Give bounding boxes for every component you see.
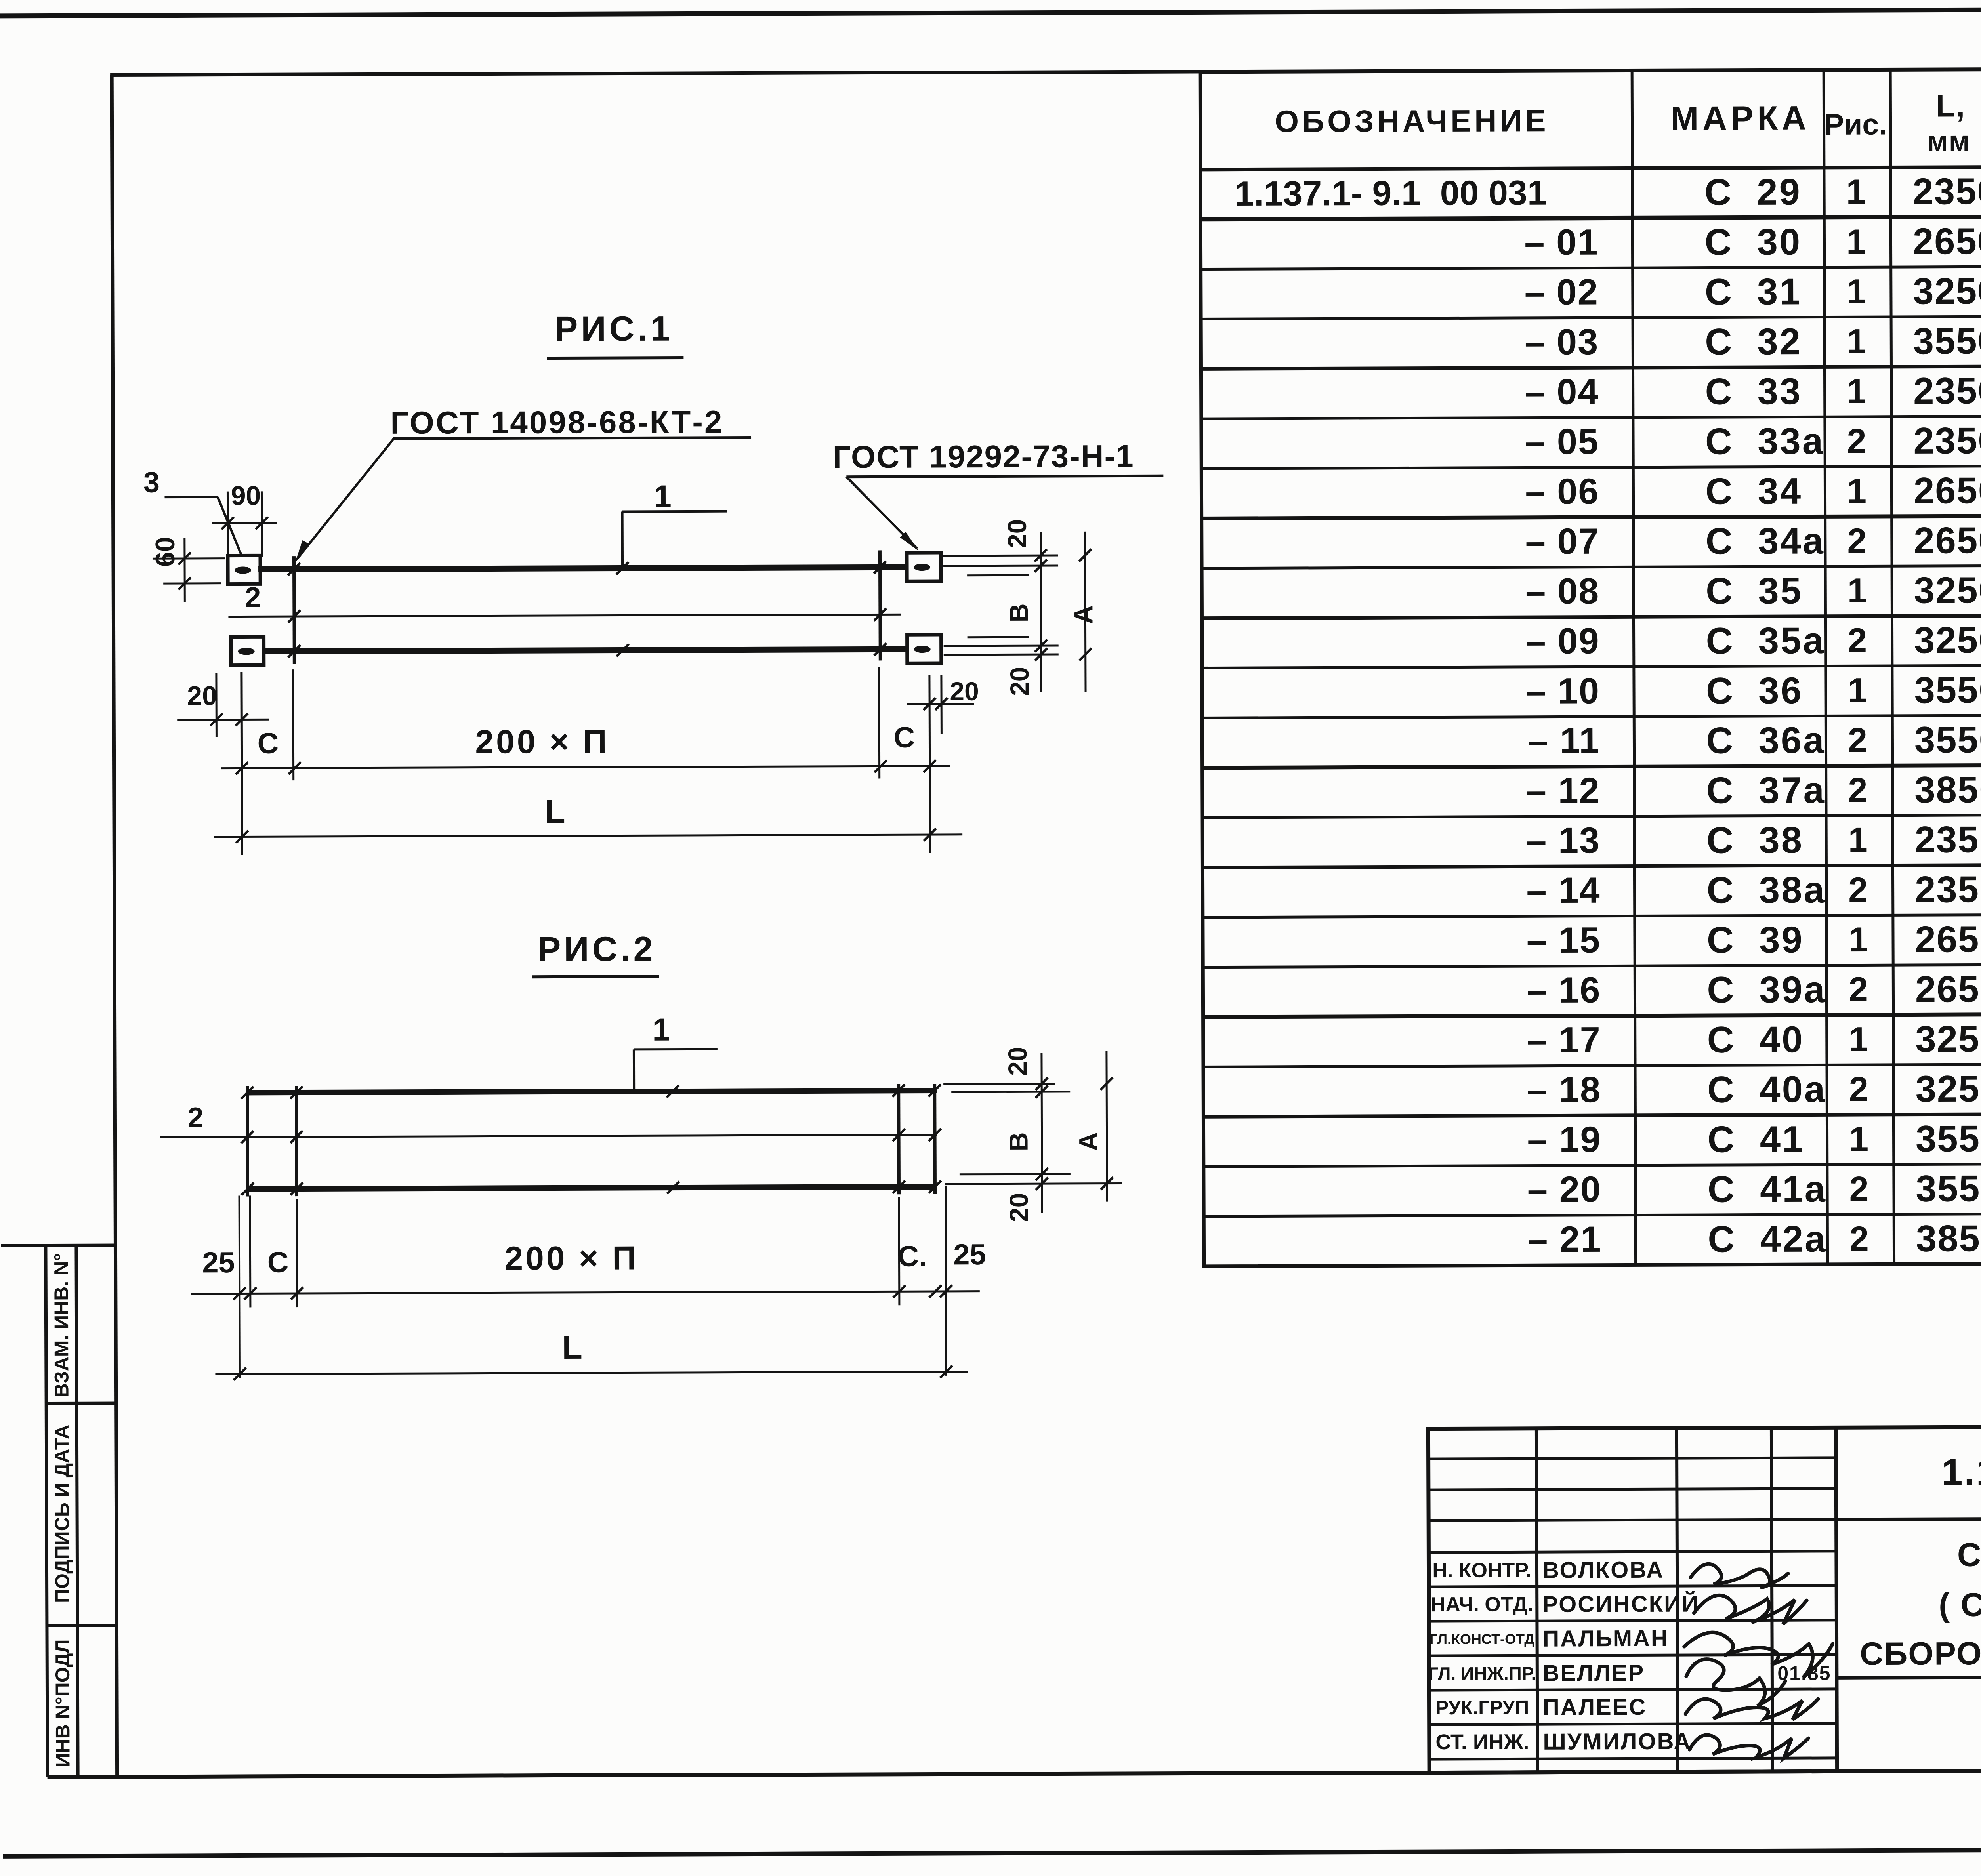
svg-text:мм: мм <box>1927 126 1971 157</box>
table column lines <box>1632 71 1636 1265</box>
svg-text:3850: 3850 <box>1916 1217 1981 1259</box>
svg-text:С 34: С 34 <box>1705 470 1802 512</box>
svg-text:20: 20 <box>1002 519 1032 549</box>
svg-text:ИНВ N°ПОДЛ: ИНВ N°ПОДЛ <box>52 1639 74 1767</box>
svg-text:L,: L, <box>1936 88 1966 123</box>
svg-text:25: 25 <box>953 1238 986 1271</box>
svg-text:2350: 2350 <box>1913 419 1981 461</box>
svg-text:– 11: – 11 <box>1528 721 1600 761</box>
svg-text:1: 1 <box>1846 272 1866 311</box>
svg-text:1: 1 <box>1847 322 1866 361</box>
svg-text:ПАЛЬМАН: ПАЛЬМАН <box>1542 1626 1669 1652</box>
svg-text:– 12: – 12 <box>1526 770 1600 811</box>
svg-text:– 10: – 10 <box>1526 671 1600 711</box>
svg-text:20: 20 <box>950 677 979 706</box>
svg-text:1: 1 <box>654 479 672 514</box>
top scan edge line <box>0 8 1981 16</box>
svg-text:ШУМИЛОВА: ШУМИЛОВА <box>1543 1729 1691 1755</box>
svg-text:Рис.: Рис. <box>1824 107 1887 141</box>
fig1 cross wire left <box>292 556 296 664</box>
svg-text:25: 25 <box>202 1246 235 1279</box>
svg-text:– 19: – 19 <box>1527 1119 1601 1160</box>
svg-text:ГЛ. ИНЖ.ПР.: ГЛ. ИНЖ.ПР. <box>1428 1663 1536 1684</box>
svg-text:3550: 3550 <box>1914 719 1981 761</box>
svg-text:С 40а: С 40а <box>1707 1068 1826 1110</box>
svg-text:2350: 2350 <box>1913 370 1981 412</box>
fig1 middle wire (item 2 leader) <box>228 614 901 616</box>
svg-text:3250: 3250 <box>1915 1018 1981 1060</box>
svg-text:2: 2 <box>1849 1070 1868 1109</box>
svg-text:2: 2 <box>187 1102 203 1134</box>
svg-text:2: 2 <box>1849 970 1868 1009</box>
svg-text:– 08: – 08 <box>1525 571 1599 612</box>
svg-text:1: 1 <box>1849 1020 1868 1059</box>
svg-text:– 18: – 18 <box>1527 1070 1601 1110</box>
svg-text:С 38: С 38 <box>1706 819 1804 861</box>
svg-text:1: 1 <box>1848 920 1868 959</box>
table outer border <box>1200 68 1981 1266</box>
fig1 weld ticks <box>288 563 300 575</box>
svg-text:А: А <box>1074 1132 1103 1151</box>
fig2 bottom dimension chain 25/С/200хП/С/25 <box>239 1196 240 1378</box>
svg-text:НАЧ. ОТД.: НАЧ. ОТД. <box>1431 1593 1533 1616</box>
svg-text:3250: 3250 <box>1914 619 1981 661</box>
svg-text:1: 1 <box>652 1012 670 1047</box>
svg-text:ВЕЛЛЕР: ВЕЛЛЕР <box>1543 1660 1645 1686</box>
svg-text:2650: 2650 <box>1914 469 1981 511</box>
svg-text:С 41: С 41 <box>1707 1118 1804 1160</box>
svg-text:– 17: – 17 <box>1527 1020 1601 1060</box>
svg-text:L: L <box>545 793 565 830</box>
svg-text:РУК.ГРУП: РУК.ГРУП <box>1435 1696 1529 1719</box>
bottom scan edge line <box>3 1848 1981 1857</box>
svg-text:С 40: С 40 <box>1707 1018 1804 1060</box>
svg-text:ВОЛКОВА: ВОЛКОВА <box>1542 1557 1664 1583</box>
svg-text:– 05: – 05 <box>1525 421 1599 462</box>
svg-text:– 03: – 03 <box>1525 322 1599 362</box>
svg-text:МАРКА: МАРКА <box>1670 99 1810 137</box>
svg-text:2: 2 <box>1849 1219 1869 1258</box>
svg-text:В: В <box>1004 1132 1033 1151</box>
fig1 right dimension chain 20/В/А/20 <box>943 555 1058 557</box>
fig2 middle wire (item 2 leader) <box>160 1135 937 1137</box>
svg-text:ГЛ.КОНСТ-ОТД: ГЛ.КОНСТ-ОТД <box>1429 1631 1534 1647</box>
svg-text:3250: 3250 <box>1913 270 1981 312</box>
svg-text:– 06: – 06 <box>1525 471 1599 512</box>
svg-text:ГОСТ 14098-68-КТ-2: ГОСТ 14098-68-КТ-2 <box>390 404 723 440</box>
svg-text:3250: 3250 <box>1915 1068 1981 1110</box>
svg-text:С 36: С 36 <box>1706 669 1803 711</box>
svg-text:1: 1 <box>1847 671 1867 710</box>
svg-text:2: 2 <box>245 581 261 613</box>
svg-text:– 09: – 09 <box>1525 621 1599 662</box>
svg-text:1: 1 <box>1847 471 1866 510</box>
fig1 anchor plate top-right <box>907 553 941 581</box>
svg-text:С 34а: С 34а <box>1706 520 1825 562</box>
svg-text:3: 3 <box>143 466 160 499</box>
svg-text:– 20: – 20 <box>1527 1169 1601 1210</box>
svg-text:200 × П: 200 × П <box>475 723 609 761</box>
svg-text:2350: 2350 <box>1914 818 1981 860</box>
drawing frame border <box>110 67 1981 75</box>
svg-text:2650: 2650 <box>1914 519 1981 561</box>
svg-text:1: 1 <box>1848 820 1868 859</box>
fig1 cross wire right <box>878 550 882 660</box>
fig2 cross wires <box>246 1086 249 1196</box>
svg-text:РИС.1: РИС.1 <box>555 309 673 349</box>
svg-text:2: 2 <box>1847 421 1866 460</box>
svg-text:3850: 3850 <box>1914 768 1981 810</box>
svg-text:2350: 2350 <box>1915 868 1981 910</box>
svg-text:– 21: – 21 <box>1527 1219 1601 1260</box>
svg-text:С 33: С 33 <box>1705 370 1802 412</box>
svg-text:В: В <box>1004 603 1033 622</box>
svg-text:– 15: – 15 <box>1527 920 1601 961</box>
svg-text:СЕТКА: СЕТКА <box>1957 1536 1981 1573</box>
svg-text:20: 20 <box>1004 1193 1033 1222</box>
svg-text:1: 1 <box>1846 222 1866 261</box>
svg-text:2: 2 <box>1849 1169 1868 1208</box>
svg-text:– 01: – 01 <box>1524 222 1598 263</box>
svg-text:С 42а: С 42а <box>1708 1218 1827 1260</box>
fig2 right dimension chain 20/В/А/20 <box>943 1083 1055 1085</box>
svg-text:3250: 3250 <box>1914 569 1981 611</box>
svg-text:2: 2 <box>1847 521 1866 560</box>
svg-text:– 04: – 04 <box>1525 372 1599 412</box>
svg-text:СТ. ИНЖ.: СТ. ИНЖ. <box>1435 1730 1529 1754</box>
signatures (handwriting) <box>1691 1564 1788 1588</box>
table header row line <box>1200 165 1981 170</box>
svg-text:3550: 3550 <box>1914 669 1981 711</box>
svg-text:1.137.1- 9.1 00 031: 1.137.1- 9.1 00 031 <box>1235 173 1547 213</box>
title block outer <box>1428 1425 1981 1773</box>
svg-text:3550: 3550 <box>1916 1167 1981 1209</box>
svg-text:1: 1 <box>1847 372 1866 411</box>
svg-text:2650: 2650 <box>1913 220 1981 262</box>
svg-text:20: 20 <box>187 681 217 711</box>
svg-text:3550: 3550 <box>1916 1117 1981 1159</box>
fig2 weld ticks <box>241 1087 254 1099</box>
fig2 top longitudinal bar <box>247 1091 937 1092</box>
fig2 bottom longitudinal bar <box>248 1187 937 1189</box>
svg-text:2: 2 <box>1848 770 1867 809</box>
fig1 anchor plate top-left <box>228 555 260 584</box>
svg-text:1: 1 <box>1849 1119 1868 1158</box>
title block column lines <box>1536 1428 1538 1772</box>
svg-text:С 35: С 35 <box>1706 570 1803 612</box>
svg-text:2350: 2350 <box>1912 170 1981 212</box>
svg-text:С 41а: С 41а <box>1708 1168 1827 1210</box>
svg-text:С 29: С 29 <box>1704 171 1802 213</box>
svg-text:( С 29 ... С 42): ( С 29 ... С 42) <box>1939 1585 1981 1623</box>
svg-text:L: L <box>562 1329 582 1366</box>
svg-text:С 31: С 31 <box>1705 271 1802 313</box>
svg-text:С: С <box>894 721 915 754</box>
svg-text:1: 1 <box>1847 571 1867 610</box>
svg-text:РОСИНСКИЙ: РОСИНСКИЙ <box>1542 1591 1699 1617</box>
svg-text:С 39а: С 39а <box>1707 969 1826 1010</box>
svg-text:С 35а: С 35а <box>1706 620 1825 662</box>
svg-text:2: 2 <box>1847 621 1867 660</box>
svg-text:ПАЛЕЕС: ПАЛЕЕС <box>1543 1694 1647 1720</box>
fig1 anchor plate bottom-left <box>231 637 264 665</box>
left inventory stamp box <box>1 1244 116 1247</box>
svg-text:С 36а: С 36а <box>1706 719 1825 761</box>
svg-text:А: А <box>1069 605 1098 624</box>
svg-text:ПОДПИСЬ И ДАТА: ПОДПИСЬ И ДАТА <box>51 1425 73 1603</box>
svg-text:С 38а: С 38а <box>1706 869 1826 911</box>
svg-text:1: 1 <box>1846 172 1865 211</box>
svg-text:– 16: – 16 <box>1527 970 1601 1011</box>
svg-text:2: 2 <box>1848 870 1868 909</box>
svg-text:С.: С. <box>897 1240 927 1273</box>
table row lines <box>1200 215 1981 219</box>
fig1 bottom longitudinal bar <box>264 649 907 651</box>
svg-text:– 07: – 07 <box>1525 521 1599 562</box>
fig1 bottom dimension chain 20/С/200хП/С/20 <box>215 673 218 737</box>
svg-text:2: 2 <box>1848 721 1867 760</box>
svg-text:– 13: – 13 <box>1526 820 1600 861</box>
fig1 top longitudinal bar <box>258 567 907 569</box>
svg-text:С 30: С 30 <box>1704 221 1802 263</box>
svg-text:Н. КОНТР.: Н. КОНТР. <box>1432 1559 1531 1582</box>
svg-text:20: 20 <box>1003 1047 1032 1076</box>
svg-text:90: 90 <box>231 480 261 511</box>
svg-text:2650: 2650 <box>1915 968 1981 1010</box>
svg-text:С: С <box>258 727 279 760</box>
svg-text:3550: 3550 <box>1913 320 1981 362</box>
svg-text:ГОСТ 19292-73-Н-1: ГОСТ 19292-73-Н-1 <box>833 438 1134 475</box>
svg-text:ВЗАМ. ИНВ. N°: ВЗАМ. ИНВ. N° <box>50 1253 73 1398</box>
svg-text:– 02: – 02 <box>1525 272 1599 313</box>
svg-text:С 32: С 32 <box>1705 320 1802 362</box>
title block row lines <box>1836 1517 1981 1519</box>
svg-text:С 33а: С 33а <box>1705 420 1825 462</box>
svg-text:2650: 2650 <box>1915 918 1981 960</box>
svg-text:– 14: – 14 <box>1526 870 1600 911</box>
svg-text:200 × П: 200 × П <box>504 1239 639 1277</box>
svg-text:РИС.2: РИС.2 <box>537 929 656 969</box>
svg-text:С 39: С 39 <box>1707 919 1804 961</box>
svg-text:20: 20 <box>1005 667 1034 696</box>
fig1 anchor plate bottom-right <box>907 635 941 663</box>
svg-text:С: С <box>267 1246 289 1279</box>
svg-text:1.137. 1 - 9.1 00 030 СБ: 1.137. 1 - 9.1 00 030 СБ <box>1941 1450 1981 1493</box>
svg-text:СБОРОЧНЫЙ ЧЕРТЕЖ: СБОРОЧНЫЙ ЧЕРТЕЖ <box>1860 1634 1981 1672</box>
svg-text:С 37а: С 37а <box>1706 769 1826 811</box>
svg-text:ОБОЗНАЧЕНИЕ: ОБОЗНАЧЕНИЕ <box>1275 103 1549 139</box>
svg-text:60: 60 <box>150 537 180 567</box>
